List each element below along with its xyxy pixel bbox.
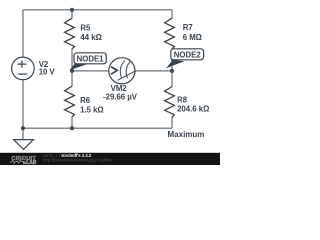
wire top rail [23, 9, 172, 11]
wire middle column below R6 [71, 117, 73, 129]
svg-text:R6: R6 [80, 96, 91, 105]
wire bottom rail [23, 127, 172, 129]
svg-text:R7: R7 [183, 23, 193, 32]
footer bar [0, 153, 220, 165]
svg-text:44 kΩ: 44 kΩ [80, 33, 101, 42]
resistor R8 [165, 87, 175, 118]
svg-text:Maximum: Maximum [168, 130, 205, 139]
junction node B (NODE2) [170, 69, 174, 73]
svg-text:R5: R5 [80, 23, 91, 32]
wire right column between R7 and node [171, 49, 173, 87]
resistor R6 [65, 86, 75, 117]
node flag NODE1 [70, 53, 107, 71]
svg-text:10 V: 10 V [39, 68, 56, 77]
ground [14, 140, 34, 150]
svg-text:R8: R8 [177, 95, 188, 104]
junction dot bottom left [21, 126, 25, 130]
svg-text:▸LAB: ▸LAB [23, 160, 37, 165]
svg-text:http://circuitlab.com/c4pzj17v: http://circuitlab.com/c4pzj17vq5km [43, 158, 113, 163]
svg-text:6 MΩ: 6 MΩ [183, 33, 202, 42]
junction dot bottom of R6 [70, 126, 74, 130]
voltage source V2 [12, 57, 35, 80]
wire node1 to voltmeter [72, 70, 109, 72]
svg-text:204.6 kΩ: 204.6 kΩ [177, 105, 209, 114]
footer logo CIRCUIT LAB [10, 156, 37, 166]
junction node A (NODE1) [70, 69, 74, 73]
junction dot top of R5 [70, 8, 74, 12]
node flag NODE2 [166, 49, 204, 69]
wire left column lower [22, 80, 24, 140]
wire voltmeter to node2 [135, 70, 172, 72]
wire right column below R8 [171, 117, 173, 128]
resistor R5 [65, 18, 75, 49]
svg-text:NODE1: NODE1 [77, 55, 105, 64]
wire left column upper [22, 10, 24, 57]
svg-text:NODE2: NODE2 [174, 51, 202, 60]
wire right column top stub [171, 10, 173, 19]
svg-text:-29.66 µV: -29.66 µV [103, 93, 138, 102]
resistor R7 [165, 18, 175, 49]
svg-text:1.5 kΩ: 1.5 kΩ [80, 105, 104, 114]
wire middle column between R5 and node [71, 49, 73, 87]
wire middle column top stub [71, 10, 73, 19]
voltmeter VM2 [109, 58, 136, 84]
